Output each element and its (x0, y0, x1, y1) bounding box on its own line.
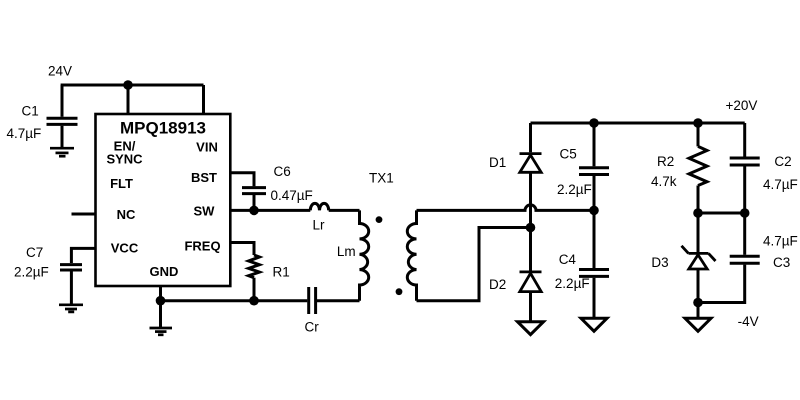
svg-text:4.7µF: 4.7µF (763, 177, 798, 192)
svg-text:FLT: FLT (110, 176, 133, 191)
wire R2 upper lead (697, 123, 700, 146)
op-amp U1 MPQ18913 box (96, 114, 231, 286)
svg-text:4.7µF: 4.7µF (763, 234, 798, 249)
wire C2 lower lead (743, 166, 746, 213)
wire D2 lower lead (529, 292, 532, 321)
wire mid rail R2 to C2 (698, 212, 745, 215)
wire C7 lower lead (70, 271, 73, 304)
wire BST lead (230, 173, 254, 187)
node D3 C3 bottom junction (693, 298, 703, 308)
svg-text:0.47µF: 0.47µF (271, 188, 313, 203)
svg-text:C6: C6 (274, 164, 291, 179)
svg-text:C4: C4 (559, 252, 577, 267)
svg-text:+20V: +20V (726, 98, 758, 113)
svg-text:TX1: TX1 (369, 171, 394, 186)
wire C5 upper lead (593, 123, 596, 166)
node D1 D2 junction (526, 223, 536, 233)
svg-text:-4V: -4V (738, 314, 759, 329)
wire D1 upper lead (529, 123, 532, 152)
transformer TX1 secondary winding (407, 210, 416, 300)
svg-text:Lm: Lm (337, 244, 356, 259)
wire C6 lower lead (253, 195, 256, 210)
wire D3 lower lead (697, 269, 700, 303)
node SW junction (249, 206, 259, 216)
svg-text:Cr: Cr (305, 320, 320, 335)
svg-text:SYNC: SYNC (106, 152, 143, 167)
wire VIN drop (202, 85, 205, 114)
wire +20V rail (531, 122, 745, 125)
wire -4V stem (697, 303, 700, 318)
node C5 top rail junction (589, 118, 599, 128)
svg-text:2.2µF: 2.2µF (555, 276, 590, 291)
capacitor C4 (579, 270, 609, 277)
svg-text:24V: 24V (48, 64, 72, 79)
ground open triangle below C4 (581, 318, 607, 331)
svg-text:GND: GND (150, 264, 179, 279)
svg-text:2.2µF: 2.2µF (14, 265, 49, 280)
wire Cr to primary bottom (317, 299, 360, 302)
wire C5 to C4 (593, 176, 596, 268)
ground below GND (150, 328, 173, 335)
wire FREQ lead (230, 243, 254, 256)
node TX1 primary polarity dot (376, 216, 383, 223)
svg-text:R1: R1 (273, 265, 290, 280)
capacitor C7 (60, 265, 82, 270)
svg-text:C1: C1 (22, 104, 39, 119)
wire R2 lower lead (697, 186, 700, 214)
ground open triangle below D2 (518, 322, 544, 335)
svg-text:SW: SW (194, 204, 216, 219)
wire 24V rail (61, 84, 204, 87)
ground open triangle below D3 (685, 318, 711, 331)
wire bottom rail GND to R1 (161, 299, 255, 302)
ground below C7 (59, 305, 83, 312)
node C5 junction (589, 206, 599, 216)
wire D1 lower lead (529, 172, 532, 227)
svg-text:R2: R2 (657, 154, 674, 169)
wire C1 riser (61, 85, 64, 117)
capacitor C3 (730, 256, 760, 263)
wire secondary top with hop over D1 line (417, 205, 595, 210)
node R2 D3 junction (693, 208, 703, 218)
ground below C1 (50, 148, 74, 156)
svg-text:C3: C3 (773, 255, 790, 270)
wire R1 lower lead (253, 278, 256, 301)
svg-text:BST: BST (191, 170, 217, 185)
diode D2 (520, 272, 542, 292)
node GND junction (156, 296, 166, 306)
resistor R2 (689, 146, 707, 185)
wire ground stem (159, 301, 162, 327)
svg-text:C2: C2 (774, 154, 791, 169)
wire SW to Lr (254, 209, 310, 212)
svg-text:NC: NC (117, 207, 136, 222)
node TX1 secondary polarity dot (396, 288, 403, 295)
svg-text:VIN: VIN (196, 140, 218, 155)
svg-text:C7: C7 (26, 245, 43, 260)
node R2 top rail junction (693, 118, 703, 128)
wire bottom rail R1 to Cr (254, 299, 307, 302)
wire SW lead (230, 209, 254, 212)
wire EN/SYNC drop (127, 85, 130, 114)
inductor Lm primary winding (360, 210, 369, 300)
capacitor C6 (242, 188, 266, 194)
wire VCC lead (71, 248, 95, 263)
svg-text:2.2µF: 2.2µF (557, 182, 592, 197)
wire D3 upper lead (697, 213, 700, 253)
capacitor Cr (309, 287, 316, 314)
wire C4 lower lead (593, 278, 596, 318)
svg-text:MPQ18913: MPQ18913 (120, 119, 206, 138)
resistor R1 (249, 255, 260, 278)
wire D2 upper lead (529, 228, 532, 271)
svg-text:D1: D1 (489, 155, 506, 170)
wire NC stub (72, 213, 96, 216)
capacitor C5 (579, 168, 609, 175)
wire Lr to primary top (329, 209, 360, 212)
svg-text:D2: D2 (489, 277, 506, 292)
wire C2 upper lead (743, 123, 746, 157)
wire C3 lower lead (698, 265, 745, 303)
inductor Lr (310, 203, 328, 210)
node C2 C3 junction (740, 208, 750, 218)
wire secondary bottom return (417, 228, 531, 301)
zener diode D3 (682, 246, 716, 269)
svg-text:4.7k: 4.7k (651, 174, 677, 189)
wire C1 lower lead (61, 126, 64, 148)
node R1 bottom junction (249, 296, 259, 306)
svg-text:VCC: VCC (111, 241, 139, 256)
capacitor C2 (730, 158, 760, 165)
node 24V junction (123, 80, 133, 90)
capacitor C1 (47, 118, 78, 124)
svg-text:C5: C5 (560, 147, 577, 162)
svg-text:Lr: Lr (313, 218, 326, 233)
svg-text:D3: D3 (651, 255, 668, 270)
svg-text:FREQ: FREQ (184, 239, 220, 254)
svg-text:4.7µF: 4.7µF (7, 126, 42, 141)
wire GND drop (159, 286, 162, 301)
diode D1 (520, 154, 542, 173)
wire C3 upper lead (743, 213, 746, 255)
